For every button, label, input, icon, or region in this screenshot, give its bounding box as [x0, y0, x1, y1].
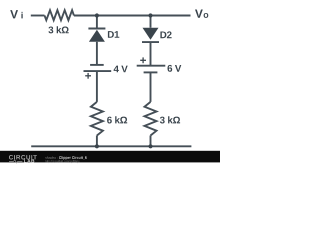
resistor R3 3k vertical zigzag	[145, 102, 157, 136]
label Vi subscript	[21, 12, 22, 19]
wire top: resistor to Vo	[74, 15, 191, 17]
battery V1 plus sign	[85, 75, 91, 77]
battery V1 short plate	[90, 64, 104, 66]
wire top: Vi to resistor	[31, 15, 45, 17]
wire branch1 battery to resistor	[96, 71, 98, 102]
diode D2 cathode bar	[142, 41, 159, 43]
label R2 value 6 kOhm	[107, 116, 127, 123]
logo waveform	[9, 160, 22, 163]
diode D1 cathode bar	[88, 28, 105, 30]
diode D2 triangle (pointing down)	[143, 28, 159, 40]
wire branch1 top segment	[96, 16, 98, 29]
label R3 value 3 kOhm	[160, 116, 180, 123]
wire bottom rail	[31, 145, 191, 147]
watermark url text	[45, 160, 79, 163]
battery V2 plus sign	[140, 59, 146, 61]
label R1 value 3 kOhm	[48, 26, 68, 33]
node dot bottom branch1	[95, 144, 99, 148]
logo LAB text	[24, 159, 34, 162]
resistor R1 3k horizontal zigzag	[45, 10, 74, 20]
wire branch1 resistor to bottom	[96, 136, 98, 147]
label D1	[108, 31, 119, 38]
diode D1 triangle (pointing up)	[89, 30, 105, 42]
node dot bottom branch2	[148, 144, 152, 148]
logo CIRCUIT text	[9, 155, 37, 160]
node dot top branch2	[148, 13, 152, 17]
watermark title text	[59, 156, 87, 160]
watermark author text	[45, 156, 57, 159]
wire branch2 top segment	[150, 16, 152, 28]
node dot top branch1	[95, 13, 99, 17]
watermark bar	[0, 151, 220, 163]
battery V2 short plate	[144, 71, 158, 73]
wire branch2 resistor to bottom	[150, 136, 152, 147]
resistor R2 6k vertical zigzag	[91, 102, 103, 136]
label Vo subscript	[204, 13, 209, 18]
wire branch2 battery to resistor	[150, 72, 152, 102]
battery V2 long plate	[137, 65, 166, 67]
label Vo	[195, 10, 203, 18]
label V2 value 6 V	[168, 65, 182, 72]
wire branch2 diode to battery	[150, 42, 152, 66]
label Vi	[10, 10, 18, 18]
wire branch1 diode to battery	[96, 42, 98, 65]
label V1 value 4 V	[114, 66, 128, 73]
label D2	[160, 31, 171, 38]
battery V1 long plate	[84, 70, 112, 72]
